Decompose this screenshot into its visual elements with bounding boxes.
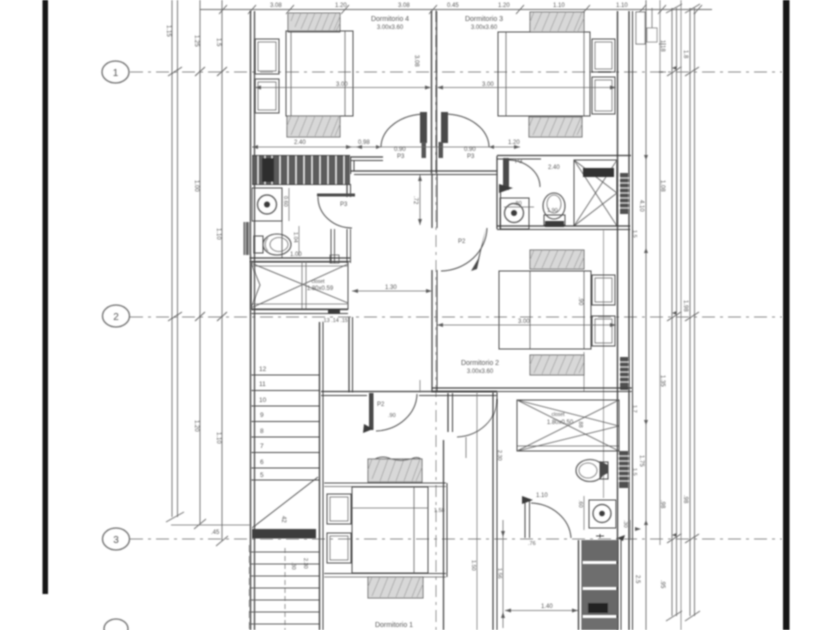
bathroom right wall	[346, 184, 348, 197]
svg-text:12: 12	[259, 366, 267, 373]
svg-text:7: 7	[260, 443, 264, 450]
svg-text:1.18: 1.18	[659, 40, 665, 52]
lower flight	[249, 545, 251, 630]
svg-text:P2: P2	[458, 239, 466, 245]
dorm1 alcove top line	[324, 482, 446, 484]
svg-text:3.00: 3.00	[336, 82, 348, 88]
svg-text:1.20: 1.20	[498, 3, 510, 9]
closet box	[251, 262, 348, 309]
dims near lower stairs	[502, 520, 504, 628]
dark stair tread 2	[582, 564, 618, 587]
right dim arrows at grids	[644, 66, 677, 537]
svg-text:1.30: 1.30	[385, 285, 397, 291]
grid bubble 4 partial	[104, 619, 128, 630]
svg-text:0.90: 0.90	[394, 147, 406, 153]
dorm3 bed body	[498, 32, 590, 116]
svg-text:.60: .60	[577, 500, 583, 508]
grid line 2 dashed	[130, 316, 782, 318]
dorm4 bed body	[286, 31, 353, 116]
svg-text:1.35: 1.35	[659, 375, 665, 387]
dorm1 footboard wall	[443, 440, 445, 630]
center partition top	[431, 11, 433, 174]
svg-text:1.10: 1.10	[553, 3, 565, 9]
svg-text:1: 1	[113, 68, 119, 79]
svg-text:1.5: 1.5	[631, 230, 637, 238]
dark stair tread 4	[582, 618, 618, 630]
vertical dim mid corridor	[419, 380, 421, 392]
dim vline right top	[659, 43, 666, 45]
dorm2 door arc	[441, 228, 487, 271]
svg-text:1.90: 1.90	[547, 208, 558, 214]
svg-text:11: 11	[259, 381, 266, 388]
svg-text:2.30: 2.30	[496, 450, 502, 461]
svg-text:1.98: 1.98	[682, 300, 688, 312]
svg-text:3.08: 3.08	[413, 55, 419, 67]
svg-text:.98: .98	[659, 500, 665, 509]
svg-text:P3: P3	[467, 154, 475, 160]
svg-text:Dormitorio 1: Dormitorio 1	[375, 622, 413, 629]
dim tick above dorm1 bed	[465, 437, 467, 458]
right dim vline b	[659, 0, 661, 545]
door P2 leaf	[369, 393, 374, 430]
toilet bowl	[263, 234, 291, 255]
svg-text:3.08: 3.08	[270, 3, 282, 9]
toilet	[543, 193, 565, 219]
window strip dark	[619, 451, 629, 488]
outer wall right outer face	[628, 11, 630, 630]
svg-text:.13 .14 .15: .13 .14 .15	[322, 318, 348, 324]
hall dim below	[419, 175, 421, 225]
svg-text:1.10: 1.10	[536, 493, 548, 499]
grid bubble 1	[102, 61, 129, 83]
small arc at corridor right	[457, 399, 497, 437]
svg-text:2: 2	[113, 312, 119, 323]
dorm2 bed body	[499, 271, 591, 349]
wash basin	[589, 500, 616, 528]
wc dim vline	[298, 226, 300, 256]
svg-text:3.00: 3.00	[482, 82, 494, 88]
tick marks grid3 row	[667, 534, 681, 543]
dorm2 bed pillow hatch	[530, 250, 584, 269]
shower dark label band	[583, 168, 614, 177]
svg-text:1.20: 1.20	[508, 140, 520, 146]
door arc dorm4	[381, 114, 426, 147]
svg-text:.30: .30	[290, 562, 296, 570]
door arc dorm3	[444, 114, 489, 147]
left dimension line pair	[171, 0, 173, 517]
closet cross lines	[251, 263, 348, 308]
dorm3 night stand upper	[592, 39, 615, 72]
stair right wall	[319, 322, 321, 630]
dorm1 bed foot hatch	[368, 577, 423, 598]
door leaf frame	[524, 500, 526, 538]
svg-text:1.20: 1.20	[335, 3, 347, 9]
svg-text:8: 8	[260, 428, 264, 435]
grid axis B vertical dashed	[435, 10, 437, 630]
landing diagonal	[252, 477, 318, 528]
svg-text:2.5: 2.5	[634, 575, 640, 584]
closet X box	[517, 400, 619, 451]
dorm2 small dims right	[583, 352, 585, 392]
svg-text:1.08: 1.08	[659, 180, 665, 192]
svg-text:3.08: 3.08	[398, 3, 410, 9]
right tall dim rect pair 1	[671, 8, 673, 616]
svg-text:1.75: 1.75	[638, 455, 644, 467]
svg-text:3.00x3.60: 3.00x3.60	[467, 369, 494, 375]
svg-text:1.00: 1.00	[193, 180, 199, 192]
shower stall	[574, 160, 617, 226]
dorm4 night stand upper	[255, 39, 279, 74]
outer wall right inner face	[617, 11, 619, 630]
dorm2 bottom wall	[432, 387, 632, 389]
bathroom left wall	[496, 156, 498, 229]
dorm4 bed pillow hatch	[288, 13, 340, 32]
svg-text:1.5: 1.5	[631, 468, 637, 476]
toilet bowl	[576, 460, 604, 482]
window marker left wall	[244, 222, 252, 255]
svg-text:1.15: 1.15	[165, 25, 171, 37]
dorm1 night stand lower	[327, 533, 351, 563]
stairwell wall right	[617, 540, 619, 630]
right lower dim marks	[629, 520, 631, 540]
dorm3 bed pillow hatch	[530, 12, 584, 32]
dorm4 interior dim line	[255, 87, 431, 89]
stair treads	[251, 375, 319, 480]
corridor inner dim line	[352, 290, 432, 292]
svg-text:4.10: 4.10	[638, 200, 644, 212]
hall dim line	[252, 146, 520, 148]
svg-text:closet: closet	[551, 412, 565, 418]
bathroom bottom wall	[497, 225, 630, 227]
svg-text:.90: .90	[388, 413, 396, 419]
dorm2 night stand upper	[592, 275, 615, 305]
grid line 3 dashed	[130, 538, 782, 540]
door frame stub	[447, 393, 449, 432]
svg-text:1.5: 1.5	[215, 38, 221, 47]
svg-text:1.56: 1.56	[496, 568, 502, 579]
svg-text:Dormitorio 4: Dormitorio 4	[371, 16, 409, 23]
svg-text:3.00: 3.00	[518, 319, 530, 325]
svg-text:5: 5	[260, 472, 264, 479]
closet bottom wall	[251, 309, 348, 311]
dorm3 night stand lower	[592, 77, 615, 114]
svg-text:1.8: 1.8	[682, 50, 688, 59]
dorm4 bed foot hatch	[287, 116, 340, 137]
dorm2 door leaf	[471, 228, 486, 271]
right dim top/bottom ticks	[666, 4, 682, 13]
dark stair tread 1	[582, 540, 618, 561]
door arc	[508, 160, 540, 187]
left dim bottom ticks	[166, 512, 184, 522]
basin dim	[583, 496, 585, 530]
svg-text:.95: .95	[659, 580, 665, 589]
dorm2 interior dim	[437, 324, 616, 326]
svg-text:9: 9	[260, 412, 264, 419]
svg-text:6: 6	[260, 459, 264, 466]
svg-text:1.25: 1.25	[193, 35, 199, 47]
dorm4 night stand lower	[255, 79, 279, 113]
door P2 arc	[376, 394, 417, 431]
left border bar	[43, 0, 49, 594]
svg-text:P3: P3	[515, 159, 523, 165]
bathroom door lintel dark	[317, 194, 355, 197]
top dimension line	[200, 9, 712, 11]
svg-text:0.45: 0.45	[447, 3, 459, 9]
small dim	[504, 206, 534, 208]
dorm2 night stand lower	[592, 316, 615, 346]
door leaf dark	[503, 158, 509, 190]
door frame posts	[330, 229, 332, 263]
closet hatch band dark	[252, 156, 350, 184]
svg-text:1.10: 1.10	[215, 432, 221, 444]
right border bar	[783, 0, 790, 630]
svg-text:P2: P2	[377, 402, 385, 408]
toilet tank	[254, 236, 263, 253]
misc small dim marks upper right of plan	[168, 44, 699, 543]
svg-text:10: 10	[259, 397, 267, 404]
svg-text:1.58: 1.58	[434, 508, 445, 514]
dorm1 night stand upper	[327, 494, 351, 524]
svg-text:42: 42	[280, 516, 286, 523]
svg-text:0.90: 0.90	[464, 147, 476, 153]
dorm1 bed body	[352, 487, 428, 573]
svg-text:0.98: 0.98	[358, 140, 370, 146]
bathroom door arc	[318, 197, 352, 228]
stair entry arrow	[596, 534, 604, 538]
svg-text:closet: closet	[311, 279, 325, 285]
tick marks grid1 row	[168, 67, 182, 76]
svg-text:.90: .90	[577, 297, 583, 306]
hall wall left L horizontal	[350, 156, 383, 158]
svg-text:Dormitorio 3: Dormitorio 3	[465, 16, 503, 23]
bathroom top wall	[497, 155, 631, 157]
dorm2 window strip dark	[620, 357, 629, 390]
svg-text:1.40: 1.40	[541, 604, 553, 610]
stairwell wall left	[578, 540, 580, 630]
corridor wall right	[492, 392, 494, 630]
door arc	[531, 503, 571, 538]
outer wall left	[250, 11, 252, 630]
dorm3 interior dim line	[437, 87, 616, 89]
bathroom bottom wall	[250, 257, 350, 259]
svg-text:.80: .80	[514, 201, 522, 207]
svg-text:.88: .88	[577, 420, 583, 428]
svg-text:Dormitorio 2: Dormitorio 2	[461, 360, 499, 367]
svg-text:1.00: 1.00	[290, 252, 302, 258]
svg-text:1.20: 1.20	[193, 420, 199, 432]
corridor top wall	[321, 391, 497, 393]
svg-text:.30: .30	[622, 520, 628, 528]
svg-text:3.00x3.60: 3.00x3.60	[471, 25, 498, 31]
door leaf dorm4	[420, 112, 427, 143]
hall wall left L vertical	[350, 157, 352, 174]
grid bubble 2	[103, 305, 130, 327]
svg-text:1.80x0.59: 1.80x0.59	[307, 286, 334, 292]
dim line through night stands	[603, 230, 605, 498]
door stop marks	[422, 142, 427, 158]
svg-text:3: 3	[113, 535, 119, 546]
wash basin	[500, 198, 529, 229]
svg-text:0.60: 0.60	[282, 196, 288, 207]
wall window strip dark	[620, 173, 629, 214]
tick marks grid2 row	[168, 312, 182, 321]
svg-text:P3: P3	[340, 202, 348, 208]
svg-text:.76: .76	[528, 541, 536, 547]
svg-text:.98: .98	[682, 495, 688, 504]
dim vline	[476, 392, 478, 630]
svg-text:2.40: 2.40	[294, 140, 306, 146]
door leaf dorm3	[441, 112, 448, 143]
dark stair tread 3	[582, 590, 618, 615]
svg-text:.72: .72	[412, 196, 418, 205]
dorm2 left wall upper	[431, 174, 433, 228]
svg-text:.45: .45	[211, 530, 220, 536]
svg-text:3.00x3.60: 3.00x3.60	[377, 25, 404, 31]
svg-text:P3: P3	[397, 154, 405, 160]
svg-text:1.50: 1.50	[470, 560, 476, 571]
corridor wall right of stairs	[348, 317, 350, 392]
dorm3 bed foot hatch	[529, 117, 582, 137]
svg-text:2.40: 2.40	[548, 165, 560, 171]
dorm1 bed pillow hatch	[368, 459, 422, 482]
grid bubble 3	[103, 528, 130, 550]
hall lower wall horizontal	[350, 170, 497, 172]
washbasin	[252, 188, 282, 221]
left dimension line single b	[221, 0, 223, 541]
right tall dim rect pair 2	[689, 8, 691, 616]
svg-text:1.80x0.50: 1.80x0.50	[547, 420, 574, 426]
svg-text:1.10: 1.10	[616, 3, 628, 9]
left dimension line single a	[199, 0, 201, 524]
grid line 1 dashed	[130, 71, 782, 73]
landing dark bar	[252, 529, 316, 539]
svg-text:1.7: 1.7	[631, 405, 637, 413]
dorm1 alcove bottom line	[324, 573, 446, 575]
svg-text:1.04: 1.04	[292, 232, 298, 243]
right wall window box top	[636, 12, 645, 44]
dorm2 bed foot hatch	[530, 355, 584, 375]
basin dim	[288, 188, 290, 221]
svg-text:2.30: 2.30	[302, 558, 308, 569]
svg-text:1.10: 1.10	[215, 228, 221, 240]
dorm2 left wall lower	[431, 270, 433, 392]
right dim vline a	[645, 0, 647, 630]
